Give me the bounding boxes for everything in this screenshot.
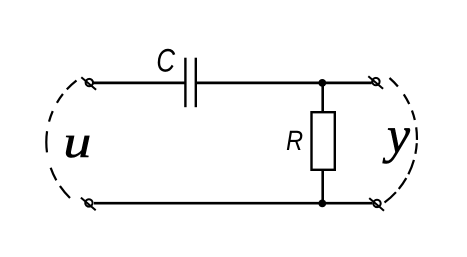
wire top-left (input to capacitor) xyxy=(94,82,186,85)
terminal top-right slash xyxy=(368,76,383,89)
terminal bottom-right slash xyxy=(369,198,384,211)
node junction top xyxy=(318,79,326,87)
terminal top-left slash xyxy=(81,77,96,90)
label R (resistor value) xyxy=(287,131,303,150)
terminal top-right circle xyxy=(372,78,379,85)
terminal bottom-left slash xyxy=(81,198,96,211)
input port u dashed arc xyxy=(46,81,76,199)
label y (output signal) xyxy=(383,128,410,163)
label u (input signal) xyxy=(66,136,89,158)
wire resistor top lead xyxy=(321,83,324,113)
terminal bottom-left circle xyxy=(85,199,92,206)
wire top-right (capacitor to output) xyxy=(196,82,372,85)
resistor R body xyxy=(312,112,335,170)
wire resistor bottom lead xyxy=(321,169,324,203)
terminal bottom-right circle xyxy=(373,200,380,207)
wire bottom xyxy=(94,202,372,205)
label C (capacitor value) xyxy=(158,49,175,72)
capacitor C left plate xyxy=(184,58,186,107)
capacitor C right plate xyxy=(195,58,197,107)
node junction bottom xyxy=(318,200,326,208)
terminal top-left circle xyxy=(86,79,93,86)
output port y dashed arc xyxy=(385,78,417,203)
